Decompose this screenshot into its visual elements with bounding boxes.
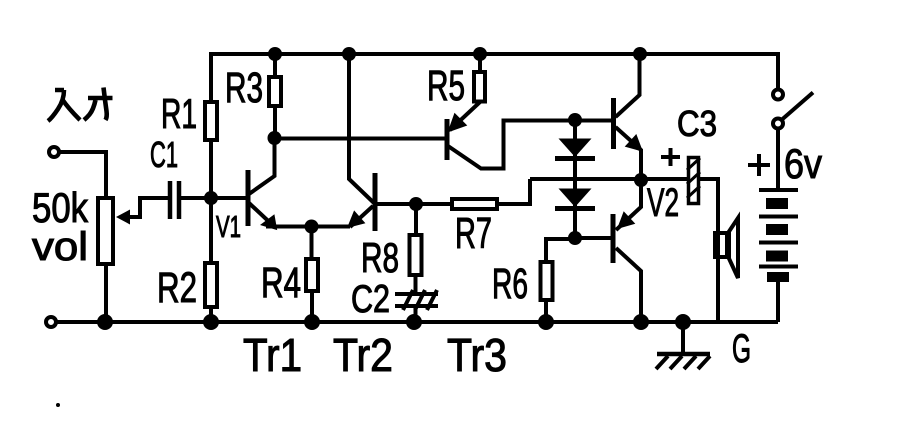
label input 入 xyxy=(48,90,80,121)
node dot rail-R2 xyxy=(203,314,219,330)
node dot rail-R4 xyxy=(304,314,320,330)
battery cells xyxy=(759,190,798,282)
bottom-left terminal circle xyxy=(46,317,56,327)
wire R5 top stub xyxy=(478,54,482,74)
svg-text:Tr1: Tr1 xyxy=(243,329,302,381)
svg-text:C1: C1 xyxy=(150,134,178,175)
wire output bus xyxy=(530,177,687,181)
resistor R4 xyxy=(306,259,318,291)
capacitor C3 plus sign xyxy=(661,148,680,166)
Q-R5 emitter from R5 xyxy=(450,102,480,130)
label input 力 xyxy=(84,88,113,121)
resistor R8 xyxy=(410,235,422,275)
output NPN emitter arrow xyxy=(625,134,643,152)
wire switch to battery xyxy=(776,128,780,190)
node dot base of Tr1 xyxy=(204,191,218,205)
svg-text:R2: R2 xyxy=(157,264,197,312)
wire C2 bottom xyxy=(414,306,418,322)
node dot rail-V2 xyxy=(633,314,649,330)
output NPN collector xyxy=(616,54,640,117)
wire Tr2 collector from rail xyxy=(349,54,374,203)
wire Tr1 emitter to common node xyxy=(266,225,312,229)
capacitor C2 xyxy=(395,290,438,310)
node dot emitters-R4 xyxy=(305,220,319,234)
svg-text:vol: vol xyxy=(32,225,88,269)
resistor R7 xyxy=(452,199,497,209)
Tr1 emitter arrow xyxy=(260,214,277,230)
svg-text:Tr3: Tr3 xyxy=(447,329,507,381)
node dot rail-pot xyxy=(97,314,113,330)
wire R1 bottom to base node xyxy=(209,140,213,198)
svg-text:C3: C3 xyxy=(677,103,717,144)
diode D2 xyxy=(559,189,592,208)
transistor V2 bar xyxy=(611,214,616,263)
svg-text:C2: C2 xyxy=(351,278,390,321)
label + battery xyxy=(748,154,770,176)
svg-text:V2: V2 xyxy=(647,181,679,225)
wire pot bottom xyxy=(104,264,108,322)
wire R3 top stub xyxy=(273,54,277,77)
switch lever xyxy=(782,93,813,120)
svg-text:R5: R5 xyxy=(427,62,465,110)
svg-text:G: G xyxy=(732,327,751,371)
Tr2 emitter arrow xyxy=(347,210,365,228)
capacitor C1 xyxy=(170,181,179,219)
wire C3 to speaker xyxy=(700,179,718,322)
svg-text:R8: R8 xyxy=(361,234,399,281)
transistor Tr1 bar xyxy=(246,170,251,226)
V2 emitter from output node xyxy=(616,180,641,230)
potentiometer 50k box xyxy=(98,198,113,264)
wire wiper to C1 xyxy=(128,198,168,217)
transistor Q-R5 bar xyxy=(445,119,450,160)
Tr2 base wire xyxy=(375,202,416,206)
switch terminal bottom xyxy=(773,119,783,129)
svg-text:V1: V1 xyxy=(216,209,241,244)
svg-text:Tr2: Tr2 xyxy=(333,329,393,381)
wire battery bottom xyxy=(776,282,780,322)
input terminal circle xyxy=(49,147,59,157)
transistor output NPN bar xyxy=(611,98,616,149)
node dot rail-Tr2 xyxy=(342,47,356,61)
wire R1 top stub xyxy=(209,52,213,101)
resistor R1 xyxy=(205,102,217,140)
node dot rail-R5 xyxy=(473,47,487,61)
svg-text:R7: R7 xyxy=(455,209,492,258)
node dot rail-C2 xyxy=(406,314,422,330)
wire diode string xyxy=(573,120,577,238)
node dot diode bottom xyxy=(568,231,582,245)
stray dot bottom left xyxy=(56,403,60,407)
Q-R5 collector path xyxy=(448,121,612,169)
ground symbol xyxy=(656,322,710,369)
resistor R3 xyxy=(269,77,281,106)
node dot rail-ground xyxy=(675,314,691,330)
wire base node to Tr1 xyxy=(211,196,246,200)
diode D1 xyxy=(559,139,592,158)
Tr1 collector xyxy=(249,140,275,194)
svg-text:6v: 6v xyxy=(784,140,822,187)
node dot rail-output xyxy=(633,47,647,61)
switch terminal top xyxy=(773,90,783,100)
V2 base wire xyxy=(575,236,613,240)
wire R6 bottom xyxy=(544,299,548,322)
capacitor C3 xyxy=(687,158,700,204)
resistor R6 xyxy=(541,262,553,300)
Tr1 emitter xyxy=(249,203,272,225)
wire R2 stubs xyxy=(209,198,213,322)
wire R7 right to output node xyxy=(497,179,530,204)
wire top supply rail xyxy=(211,52,778,56)
wire R7 left stub xyxy=(416,202,452,206)
node dot R3-Tr1 collector xyxy=(268,131,282,145)
wire input to pot xyxy=(59,152,106,197)
node dot rail-R3 xyxy=(268,47,282,61)
svg-text:50k: 50k xyxy=(32,184,89,231)
V2 emitter arrow xyxy=(617,211,635,229)
svg-text:R3: R3 xyxy=(225,64,263,112)
wire Tr2 emitter to common node xyxy=(312,225,351,229)
wire rail to switch xyxy=(776,52,780,90)
pot wiper arrow xyxy=(116,210,130,225)
Q-R5 emitter arrow xyxy=(448,113,468,133)
wire R4 stubs xyxy=(310,227,315,323)
node dot diode top xyxy=(568,113,582,127)
resistor R2 xyxy=(205,263,217,307)
transistor Tr2 bar xyxy=(373,173,378,231)
node dot output xyxy=(634,173,648,187)
svg-text:R4: R4 xyxy=(261,259,301,307)
svg-text:R6: R6 xyxy=(492,260,528,308)
svg-text:R1: R1 xyxy=(161,90,197,137)
node dot R8-R7 xyxy=(409,197,423,211)
wire R8 stubs xyxy=(414,204,419,294)
speaker xyxy=(715,218,738,278)
wire C1 to base node xyxy=(181,196,211,200)
resistor R5 xyxy=(474,72,485,102)
wire bottom ground rail xyxy=(56,320,778,324)
wire base bus to Q-R5 xyxy=(275,137,447,141)
wire R3 bottom to node xyxy=(273,104,277,138)
output NPN emitter xyxy=(616,127,642,180)
V2 collector xyxy=(616,248,641,322)
wire diode bottom to R6 xyxy=(546,239,575,262)
node dot rail-R6 xyxy=(538,314,554,330)
Tr2 emitter xyxy=(350,206,373,227)
